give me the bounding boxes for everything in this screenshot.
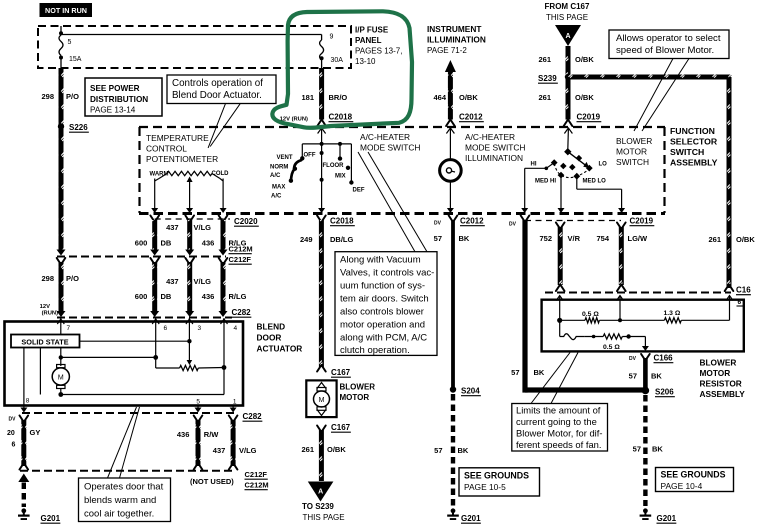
splice S204 bbox=[450, 386, 456, 392]
mode switch wiper arc bbox=[291, 160, 301, 181]
svg-text:0.5 Ω: 0.5 Ω bbox=[582, 311, 599, 318]
svg-text:SELECTOR: SELECTOR bbox=[670, 137, 718, 147]
svg-text:ASSEMBLY: ASSEMBLY bbox=[670, 158, 718, 168]
svg-text:600: 600 bbox=[135, 239, 148, 248]
svg-text:PAGE 10-5: PAGE 10-5 bbox=[464, 482, 506, 492]
svg-text:SWITCH: SWITCH bbox=[670, 147, 704, 157]
svg-text:261: 261 bbox=[538, 55, 551, 64]
svg-text:(NOT USED): (NOT USED) bbox=[190, 477, 234, 486]
svg-text:Blower Motor, for dif-: Blower Motor, for dif- bbox=[516, 428, 603, 439]
svg-text:G201: G201 bbox=[41, 514, 61, 523]
svg-text:298: 298 bbox=[41, 274, 54, 283]
svg-text:FROM C167: FROM C167 bbox=[545, 2, 590, 11]
wire cold end down bbox=[222, 179, 224, 210]
svg-text:uum function of sys-: uum function of sys- bbox=[340, 281, 425, 292]
svg-text:437: 437 bbox=[166, 277, 179, 286]
leader lines from Limits note to resistor box bbox=[531, 353, 570, 404]
svg-text:V/LG: V/LG bbox=[194, 277, 212, 286]
svg-text:VENT: VENT bbox=[277, 155, 293, 161]
blower switch contacts bbox=[551, 159, 558, 166]
svg-text:A/C: A/C bbox=[271, 194, 282, 200]
svg-text:POTENTIOMETER: POTENTIOMETER bbox=[146, 154, 218, 164]
wire wiper down bbox=[189, 182, 191, 210]
svg-text:298: 298 bbox=[41, 92, 54, 101]
actuator pin 7 bbox=[60, 318, 62, 335]
svg-text:13-10: 13-10 bbox=[355, 57, 376, 66]
svg-text:436: 436 bbox=[177, 430, 190, 439]
actuator pin 6 bbox=[155, 318, 157, 368]
node at fuse 5 bottom bbox=[59, 56, 63, 60]
svg-text:HI: HI bbox=[531, 162, 537, 168]
resistor 1.3 ohm bbox=[664, 318, 681, 323]
svg-text:M: M bbox=[58, 375, 64, 382]
wire 436 R/W bbox=[194, 416, 203, 423]
svg-text:1: 1 bbox=[233, 399, 237, 406]
svg-text:SEE GROUNDS: SEE GROUNDS bbox=[464, 471, 529, 481]
svg-text:DV: DV bbox=[434, 221, 442, 227]
actuator pin 1 bbox=[232, 406, 234, 412]
svg-text:R/W: R/W bbox=[204, 430, 220, 439]
svg-text:57: 57 bbox=[633, 445, 641, 454]
blower switch MED HI output wire bbox=[560, 175, 562, 209]
svg-text:S204: S204 bbox=[461, 387, 480, 396]
svg-text:ILLUMINATION: ILLUMINATION bbox=[465, 153, 523, 163]
svg-text:OFF: OFF bbox=[304, 153, 316, 159]
green highlight loop bbox=[272, 11, 412, 128]
svg-text:30A: 30A bbox=[331, 57, 344, 64]
ground G201 left bbox=[21, 508, 26, 513]
svg-text:O/BK: O/BK bbox=[327, 445, 346, 454]
wire 57 BK below C166 bbox=[641, 354, 650, 361]
mode switch FLOOR contact bbox=[338, 142, 342, 146]
svg-text:C167: C167 bbox=[331, 368, 351, 377]
resistor top rail bbox=[560, 319, 585, 321]
svg-text:NORM: NORM bbox=[270, 165, 288, 171]
svg-text:BK: BK bbox=[534, 368, 545, 377]
svg-text:5: 5 bbox=[68, 39, 72, 46]
svg-text:A/C: A/C bbox=[270, 173, 281, 179]
svg-text:C212M: C212M bbox=[245, 481, 269, 490]
wire 298 P/O lower segment bbox=[57, 258, 66, 265]
actuator feedback resistor bbox=[156, 367, 180, 369]
svg-text:TEMPERATURE: TEMPERATURE bbox=[146, 133, 209, 143]
ground G201 center bbox=[451, 508, 456, 513]
svg-text:V/LG: V/LG bbox=[239, 446, 257, 455]
svg-text:LG/W: LG/W bbox=[628, 234, 648, 243]
svg-text:BLEND: BLEND bbox=[257, 322, 286, 332]
connector C282 dashed line bbox=[57, 317, 232, 319]
svg-text:MOTOR: MOTOR bbox=[616, 147, 647, 157]
svg-text:PAGE 13-14: PAGE 13-14 bbox=[90, 106, 136, 115]
svg-text:TO S239: TO S239 bbox=[302, 502, 334, 511]
svg-text:3: 3 bbox=[198, 325, 202, 332]
note box SEE GROUNDS PAGE 10-5 bbox=[459, 468, 540, 496]
svg-text:DV: DV bbox=[9, 417, 17, 423]
leader lines from mode switch to Along note box bbox=[358, 152, 415, 252]
svg-text:speed of Blower Motor.: speed of Blower Motor. bbox=[616, 45, 714, 56]
svg-text:MED HI: MED HI bbox=[535, 179, 556, 185]
resistor 0.5 ohm upper bbox=[585, 318, 599, 323]
splice S239 bbox=[565, 74, 571, 80]
wire 298 P/O upper segment bbox=[59, 68, 64, 250]
svg-text:RESISTOR: RESISTOR bbox=[700, 379, 742, 389]
wire 436 R/LG lower bbox=[219, 258, 228, 265]
svg-text:DV: DV bbox=[629, 356, 637, 362]
svg-text:DB/LG: DB/LG bbox=[330, 235, 353, 244]
svg-text:THIS PAGE: THIS PAGE bbox=[303, 513, 345, 522]
svg-text:Operates door that: Operates door that bbox=[84, 482, 164, 493]
svg-text:I/P FUSE: I/P FUSE bbox=[355, 26, 389, 35]
solid state second leg bbox=[39, 348, 41, 395]
svg-text:9: 9 bbox=[330, 34, 334, 41]
svg-text:SWITCH: SWITCH bbox=[616, 157, 649, 167]
svg-text:600: 600 bbox=[135, 292, 148, 301]
svg-text:O/BK: O/BK bbox=[575, 93, 594, 102]
svg-text:Valves, it controls vac-: Valves, it controls vac- bbox=[340, 268, 434, 279]
mode switch MIX contact bbox=[346, 166, 350, 170]
svg-text:FUNCTION: FUNCTION bbox=[670, 126, 715, 136]
resistor feed from 754 bbox=[617, 296, 624, 301]
svg-text:blends warm and: blends warm and bbox=[84, 495, 156, 506]
note box SEE GROUNDS PAGE 10-4 bbox=[656, 468, 734, 492]
wire 261 O/BK to off-page bbox=[317, 426, 326, 433]
svg-text:C2018: C2018 bbox=[330, 217, 354, 226]
wire 464 O/BK bbox=[448, 71, 453, 120]
connector C212 dashed line bbox=[57, 256, 226, 258]
svg-text:57: 57 bbox=[629, 372, 637, 381]
svg-text:C2019: C2019 bbox=[577, 113, 601, 122]
wire 600 DB lower bbox=[150, 258, 159, 265]
svg-text:BLOWER: BLOWER bbox=[340, 383, 376, 392]
svg-text:BK: BK bbox=[651, 372, 662, 381]
fuse 5 15A bbox=[59, 35, 63, 56]
svg-text:G201: G201 bbox=[461, 514, 481, 523]
svg-text:12V: 12V bbox=[40, 304, 50, 310]
blower motor symbol bbox=[317, 383, 326, 389]
svg-text:437: 437 bbox=[213, 446, 226, 455]
svg-text:PAGE 10-4: PAGE 10-4 bbox=[661, 481, 703, 491]
blower motor resistor assembly box bbox=[542, 300, 744, 352]
svg-text:A/C-HEATER: A/C-HEATER bbox=[360, 132, 410, 142]
wire fuse9 to box bottom bbox=[321, 58, 323, 68]
svg-text:57: 57 bbox=[434, 446, 442, 455]
svg-text:BK: BK bbox=[459, 234, 470, 243]
svg-text:current going to the: current going to the bbox=[516, 416, 597, 427]
svg-text:C212M: C212M bbox=[229, 245, 253, 254]
svg-text:752: 752 bbox=[539, 234, 552, 243]
svg-text:MOTOR: MOTOR bbox=[700, 368, 731, 378]
wire 57 BK dashed to ground bbox=[451, 394, 455, 506]
actuator pin 5 bbox=[197, 406, 199, 412]
blower motor switch rotary bbox=[564, 128, 572, 134]
svg-text:V/R: V/R bbox=[568, 234, 581, 243]
leader lines from Controls note to potentiometer bbox=[208, 104, 225, 148]
wire from hot feed to fuse 5 bbox=[60, 26, 62, 33]
blower switch MED LO output wire bbox=[576, 176, 578, 189]
svg-text:O/BK: O/BK bbox=[736, 235, 755, 244]
svg-text:57: 57 bbox=[434, 234, 442, 243]
svg-text:M: M bbox=[319, 397, 325, 404]
label NOT IN RUN bbox=[40, 3, 93, 17]
svg-text:C2012: C2012 bbox=[460, 217, 484, 226]
splice S226 bbox=[58, 123, 64, 129]
svg-text:A: A bbox=[318, 489, 323, 496]
svg-text:PAGES 13-7,: PAGES 13-7, bbox=[355, 47, 402, 56]
wire 600 DB upper bbox=[150, 216, 159, 223]
svg-text:1.3 Ω: 1.3 Ω bbox=[664, 310, 681, 317]
svg-text:DB: DB bbox=[161, 239, 172, 248]
note box Operates door that blends bbox=[79, 478, 171, 522]
fuse 9 30A bbox=[321, 35, 323, 41]
arrow to instrument illumination bbox=[445, 60, 456, 72]
connector C2020 line and label bbox=[155, 218, 230, 220]
svg-text:C212F: C212F bbox=[245, 470, 268, 479]
svg-text:INSTRUMENT: INSTRUMENT bbox=[427, 24, 481, 34]
svg-text:SOLID STATE: SOLID STATE bbox=[21, 337, 68, 346]
resistor feed from 261 bbox=[726, 296, 733, 301]
off-page triangle A from C167 bbox=[555, 25, 581, 46]
wire 57 BK dashed to ground right bbox=[643, 395, 647, 506]
wire 437 V/LG to C212F bbox=[229, 416, 238, 423]
svg-text:6: 6 bbox=[12, 442, 16, 449]
wire 57 BK heavy from HI bbox=[521, 216, 530, 223]
node at fuse 5 top bbox=[59, 31, 63, 35]
connector C2019 line and label bbox=[525, 220, 621, 222]
svg-text:0.5 Ω: 0.5 Ω bbox=[603, 344, 620, 351]
wire 261 O/BK branch to C16 horizontal run bbox=[566, 75, 732, 80]
svg-text:(RUN): (RUN) bbox=[42, 311, 58, 317]
svg-text:436: 436 bbox=[202, 292, 215, 301]
blower switch dashed track bbox=[554, 164, 589, 178]
power distribution dashed box bbox=[38, 26, 351, 68]
svg-text:MOTOR: MOTOR bbox=[340, 393, 370, 402]
svg-text:COLD: COLD bbox=[212, 171, 230, 177]
svg-text:BR/O: BR/O bbox=[329, 93, 348, 102]
svg-text:C166: C166 bbox=[654, 354, 674, 363]
svg-text:249: 249 bbox=[300, 235, 313, 244]
svg-text:cool air together.: cool air together. bbox=[84, 509, 154, 520]
note box Controls operation of Blend Door Actuator bbox=[167, 75, 276, 104]
svg-text:ILLUMINATION: ILLUMINATION bbox=[427, 35, 486, 45]
note box Along with Vacuum Valves bbox=[335, 252, 437, 356]
svg-text:261: 261 bbox=[538, 93, 551, 102]
svg-text:C2020: C2020 bbox=[234, 217, 258, 226]
note box Allows operator to select speed of Blower Motor bbox=[609, 30, 729, 59]
svg-text:C16: C16 bbox=[736, 286, 751, 295]
solid state output to pin3 node bbox=[80, 340, 190, 342]
svg-text:5: 5 bbox=[196, 399, 200, 406]
resistor 0.5 ohm lower bbox=[603, 334, 622, 339]
svg-text:CONTROL: CONTROL bbox=[146, 144, 187, 154]
svg-text:Blend Door Actuator.: Blend Door Actuator. bbox=[172, 90, 262, 101]
ground lead from 206 GY bbox=[18, 474, 29, 483]
mode switch DEF contact bbox=[350, 144, 352, 181]
mode switch common output bbox=[321, 144, 323, 210]
svg-text:BK: BK bbox=[652, 445, 663, 454]
svg-text:C2018: C2018 bbox=[329, 113, 353, 122]
wire 754 LG/W bbox=[617, 223, 626, 230]
illumination lamp bbox=[446, 128, 454, 134]
svg-text:ferent speeds of fan.: ferent speeds of fan. bbox=[516, 439, 601, 450]
svg-text:P/O: P/O bbox=[66, 92, 79, 101]
svg-text:P/O: P/O bbox=[66, 274, 79, 283]
svg-text:DV: DV bbox=[509, 222, 517, 228]
actuator motor bbox=[57, 365, 65, 368]
blower switch HI output wire bbox=[546, 163, 554, 169]
svg-text:BLOWER: BLOWER bbox=[616, 136, 652, 146]
svg-text:261: 261 bbox=[708, 235, 721, 244]
blower motor box bbox=[306, 380, 336, 417]
resistor output down bbox=[644, 337, 646, 349]
solid state module bbox=[11, 335, 80, 348]
node at fuse 9 bottom bbox=[320, 56, 324, 60]
actuator pin 8 bbox=[23, 348, 25, 412]
svg-text:C282: C282 bbox=[243, 412, 263, 421]
wire 261 O/BK above S239 bbox=[566, 46, 571, 77]
svg-text:tem air doors. Switch: tem air doors. Switch bbox=[340, 294, 429, 305]
svg-text:6: 6 bbox=[164, 325, 168, 332]
svg-text:C2019: C2019 bbox=[630, 217, 654, 226]
potentiometer wiper arrow bbox=[187, 177, 193, 183]
svg-text:C212F: C212F bbox=[229, 255, 252, 264]
svg-text:GY: GY bbox=[30, 428, 41, 437]
wire 437 V/LG upper bbox=[185, 216, 194, 223]
svg-text:MODE SWITCH: MODE SWITCH bbox=[360, 143, 420, 153]
actuator pin 3 bbox=[188, 318, 190, 361]
actuator pin 4 bbox=[223, 318, 225, 395]
svg-text:PANEL: PANEL bbox=[355, 36, 382, 45]
svg-text:261: 261 bbox=[301, 445, 314, 454]
leader lines from Operates note to actuator bbox=[108, 407, 137, 478]
svg-text:MAX: MAX bbox=[272, 185, 285, 191]
feedback wiper arrow bbox=[187, 360, 193, 365]
svg-text:A/C-HEATER: A/C-HEATER bbox=[465, 132, 515, 142]
svg-text:181: 181 bbox=[301, 93, 314, 102]
note box SEE POWER DISTRIBUTION bbox=[85, 78, 162, 116]
svg-text:754: 754 bbox=[596, 234, 609, 243]
svg-text:57: 57 bbox=[511, 368, 519, 377]
svg-text:BK: BK bbox=[458, 446, 469, 455]
wire 249 DB/LG bbox=[317, 216, 326, 223]
svg-text:436: 436 bbox=[202, 239, 215, 248]
svg-text:MIX: MIX bbox=[335, 174, 346, 180]
wire 206 GY bbox=[20, 416, 29, 423]
wire 57 BK below C2012 bbox=[449, 216, 458, 223]
blower switch wiper arm bbox=[568, 152, 586, 166]
svg-text:R/LG: R/LG bbox=[229, 292, 247, 301]
svg-text:V/LG: V/LG bbox=[194, 223, 212, 232]
svg-text:also controls blower: also controls blower bbox=[340, 307, 424, 318]
wire 261 O/BK right vertical run bbox=[727, 77, 732, 288]
connector C282 lower dashed line bbox=[22, 412, 236, 414]
bus wire between fuse tops bbox=[61, 34, 322, 36]
svg-text:BLOWER: BLOWER bbox=[700, 358, 737, 368]
svg-text:20: 20 bbox=[7, 430, 15, 437]
svg-text:ASSEMBLY: ASSEMBLY bbox=[700, 389, 746, 399]
ground G201 right bbox=[643, 508, 648, 513]
svg-text:464: 464 bbox=[433, 93, 446, 102]
svg-text:LO: LO bbox=[599, 162, 608, 168]
thermal limiter bbox=[559, 320, 561, 336]
svg-text:S206: S206 bbox=[655, 388, 674, 397]
svg-text:DB: DB bbox=[161, 292, 172, 301]
svg-text:7: 7 bbox=[67, 325, 71, 332]
svg-text:S226: S226 bbox=[69, 123, 88, 132]
wire 752 V/R bbox=[556, 223, 565, 230]
svg-text:4: 4 bbox=[234, 325, 238, 332]
a/c-heater mode switch rotary bbox=[318, 128, 326, 134]
svg-text:PAGE 71-2: PAGE 71-2 bbox=[427, 46, 467, 55]
actuator bottom bus bbox=[58, 392, 63, 397]
svg-text:along with PCM, A/C: along with PCM, A/C bbox=[340, 333, 427, 344]
svg-text:ACTUATOR: ACTUATOR bbox=[257, 344, 303, 354]
svg-text:THIS PAGE: THIS PAGE bbox=[546, 13, 588, 22]
motor top rail bbox=[60, 348, 62, 367]
off-page triangle A to S239 bbox=[308, 482, 334, 502]
svg-text:C167: C167 bbox=[331, 423, 351, 432]
wire 181 BR/O bbox=[319, 68, 324, 120]
svg-text:DEF: DEF bbox=[353, 188, 365, 194]
svg-text:MED LO: MED LO bbox=[583, 179, 607, 185]
svg-text:NOT IN RUN: NOT IN RUN bbox=[45, 6, 87, 15]
svg-text:O/BK: O/BK bbox=[459, 93, 478, 102]
connector C212 lower dashed line bbox=[20, 470, 236, 472]
blend door actuator box bbox=[5, 322, 244, 406]
svg-text:C2012: C2012 bbox=[459, 113, 483, 122]
svg-text:Allows operator to select: Allows operator to select bbox=[616, 33, 721, 44]
junction dots on rail bbox=[557, 318, 562, 323]
svg-text:DISTRIBUTION: DISTRIBUTION bbox=[90, 95, 148, 104]
svg-text:clutch operation.: clutch operation. bbox=[340, 345, 410, 356]
wire 437 V/LG lower bbox=[185, 258, 194, 265]
function selector assembly dashed box bbox=[139, 126, 665, 128]
wire 436 R/LG upper bbox=[219, 216, 228, 223]
svg-text:SEE POWER: SEE POWER bbox=[90, 84, 140, 93]
svg-text:A: A bbox=[565, 33, 570, 40]
resistor feed from 752 bbox=[556, 296, 563, 301]
wire 261 O/BK from S239 to C2019 bbox=[566, 77, 571, 120]
leader lines from Allows note to blower switch bbox=[634, 59, 673, 132]
connector C16 dashed line bbox=[545, 292, 731, 294]
note box Limits the amount of current bbox=[512, 404, 608, 452]
svg-text:FLOOR: FLOOR bbox=[323, 163, 345, 169]
svg-text:SEE GROUNDS: SEE GROUNDS bbox=[661, 470, 726, 480]
svg-text:15A: 15A bbox=[69, 56, 82, 63]
mode switch OFF contact bbox=[301, 144, 303, 157]
splice S206 bbox=[642, 387, 650, 395]
svg-text:motor operation and: motor operation and bbox=[340, 320, 425, 331]
wire warm end down bbox=[154, 179, 156, 210]
svg-text:437: 437 bbox=[166, 223, 179, 232]
svg-text:DOOR: DOOR bbox=[257, 333, 282, 343]
svg-text:G201: G201 bbox=[657, 514, 677, 523]
wire fuse5 to box bottom bbox=[60, 58, 62, 69]
svg-text:Controls operation of: Controls operation of bbox=[172, 78, 263, 89]
svg-text:MODE SWITCH: MODE SWITCH bbox=[465, 143, 525, 153]
svg-text:O/BK: O/BK bbox=[575, 55, 594, 64]
svg-text:C282: C282 bbox=[232, 308, 252, 317]
svg-text:S239: S239 bbox=[538, 74, 557, 83]
svg-text:Along with Vacuum: Along with Vacuum bbox=[340, 255, 421, 266]
svg-text:Limits the amount of: Limits the amount of bbox=[516, 405, 601, 416]
svg-text:8: 8 bbox=[26, 398, 30, 405]
